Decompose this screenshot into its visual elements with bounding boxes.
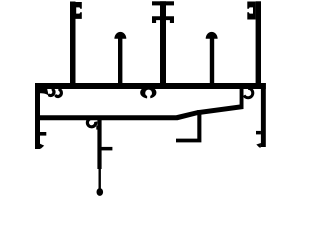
middle screw boss (omega) (140, 87, 156, 99)
hanger bump (96, 126, 99, 130)
left gasket lip 1 (50, 90, 54, 96)
left glazing leg (70, 2, 76, 84)
left wall corner gusset (40, 89, 49, 96)
middle leg stem (160, 1, 166, 83)
right hook stem (240, 89, 244, 106)
left dome pin head (114, 32, 126, 39)
right wall stub (256, 131, 261, 135)
left wall (35, 83, 40, 149)
middle leg bottom flange with end tabs (152, 16, 174, 23)
drip step (176, 110, 201, 142)
screw boss slot opening (white) (147, 93, 150, 100)
top flange (head rail) (35, 83, 266, 89)
right wall foot (256, 143, 261, 148)
left leg C-hook (76, 2, 82, 19)
interior shelf (40, 104, 244, 120)
left dome pin stem (118, 37, 122, 84)
right dome pin head (206, 32, 218, 39)
right dome pin stem (210, 37, 214, 84)
center hanger rod upper (97, 118, 101, 169)
rod tip blob (97, 188, 104, 196)
screw boss bore (white) (145, 90, 152, 97)
right wall (261, 83, 266, 147)
right screw hook (244, 88, 253, 97)
center hanger rod lower (99, 168, 101, 190)
rod side stub (101, 147, 112, 151)
left gasket lip 2 (56, 90, 61, 97)
right glazing leg (256, 1, 261, 83)
left wall stub (40, 132, 46, 136)
middle leg top flange (152, 1, 174, 5)
left wall foot (40, 144, 44, 149)
right leg C-hook (247, 2, 255, 20)
center gasket hook (87, 118, 95, 126)
